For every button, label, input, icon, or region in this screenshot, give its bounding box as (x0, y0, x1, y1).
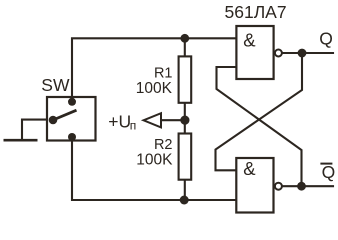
wire: top net from switch top to gate D1.1 input (72, 38, 236, 99)
svg-text:100K: 100K (136, 151, 173, 168)
op gate D1.1 (NAND) (236, 26, 282, 79)
svg-text:SW: SW (41, 75, 70, 95)
svg-text:100K: 100K (136, 80, 173, 97)
svg-text:+U: +U (108, 111, 131, 131)
svg-text:&: & (243, 158, 256, 179)
svg-text:Q: Q (322, 162, 336, 182)
switch pole pivot (49, 116, 58, 125)
wire: Q output from bubble to right edge (282, 52, 333, 54)
svg-text:&: & (243, 29, 256, 50)
svg-text:R2: R2 (154, 137, 173, 153)
node Qbar junction (297, 182, 306, 191)
wire: Qbar output from bubble to right edge (282, 185, 333, 187)
wire: R1 bottom to R2 top (184, 103, 186, 134)
power +Up arrow (108, 111, 161, 132)
ground (4, 139, 38, 142)
switch top contact (68, 98, 76, 106)
wire: cross-coupling from Q node down to gate D1.2 upper input (216, 53, 303, 170)
node Q junction (298, 49, 307, 58)
switch bottom contact (68, 133, 76, 141)
switch SW (41, 75, 95, 141)
op gate D1.2 (NAND) (236, 158, 282, 213)
svg-text:Q: Q (319, 29, 333, 49)
svg-text:561ЛА7: 561ЛА7 (225, 2, 287, 22)
wire: cross-coupling from gate D1.1 lower input down to Qbar node (217, 67, 302, 186)
node: top divider junction (180, 34, 189, 43)
node: bottom divider junction (180, 196, 189, 205)
switch lever (53, 110, 77, 120)
resistor R2 (136, 134, 191, 180)
node: divider midpoint junction (180, 116, 189, 125)
wire: bottom net from switch bottom to gate D1.2 input (72, 141, 235, 201)
gate D1.2 inversion bubble (275, 183, 282, 190)
wire: R chain vertical top (184, 38, 186, 57)
wire: +Up feed to divider midpoint (161, 119, 185, 121)
resistor R1 (136, 56, 191, 102)
label Qbar output (320, 162, 335, 182)
gate D1.1 inversion bubble (275, 50, 282, 57)
wire: ground lead from switch pole (22, 120, 47, 139)
svg-text:R1: R1 (154, 65, 173, 81)
svg-text:п: п (130, 119, 137, 133)
wire: R2 bottom to bottom net (184, 180, 186, 200)
